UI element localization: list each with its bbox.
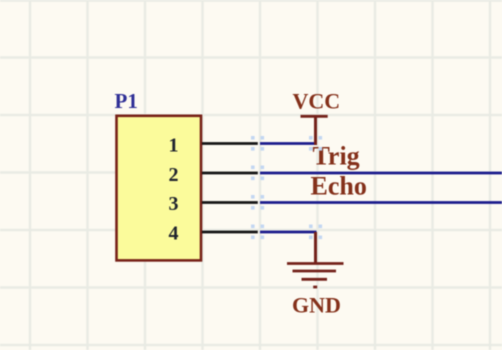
svg-text:GND: GND [292,293,341,318]
pin 4 [169,222,258,244]
pin 3 [169,193,258,215]
ground GND [287,232,344,318]
svg-text:Echo: Echo [311,171,367,200]
svg-text:4: 4 [169,222,179,244]
svg-text:VCC: VCC [293,89,341,114]
svg-text:2: 2 [169,164,179,186]
pin 1 [169,135,258,157]
svg-text:3: 3 [169,193,179,215]
designator P1 [115,89,138,113]
power port VCC [293,89,341,146]
svg-text:Trig: Trig [313,142,360,171]
wire Echo net [260,201,502,204]
svg-text:P1: P1 [115,89,138,113]
junction markers VCC bend [309,136,322,151]
junction markers pin2 [251,166,264,181]
net label Trig [313,142,360,171]
pin 2 [169,164,258,186]
junction markers GND bend [309,225,322,240]
connector P1 body [117,116,202,261]
svg-text:1: 1 [169,135,179,157]
junction markers pin1 [251,136,264,151]
net label Echo [311,171,367,200]
junction markers pin4 [251,225,264,240]
wire Trig net [260,172,502,175]
wire pin1 to VCC [260,142,317,145]
junction markers pin3 [251,195,264,210]
wire pin4 to GND [260,231,317,234]
